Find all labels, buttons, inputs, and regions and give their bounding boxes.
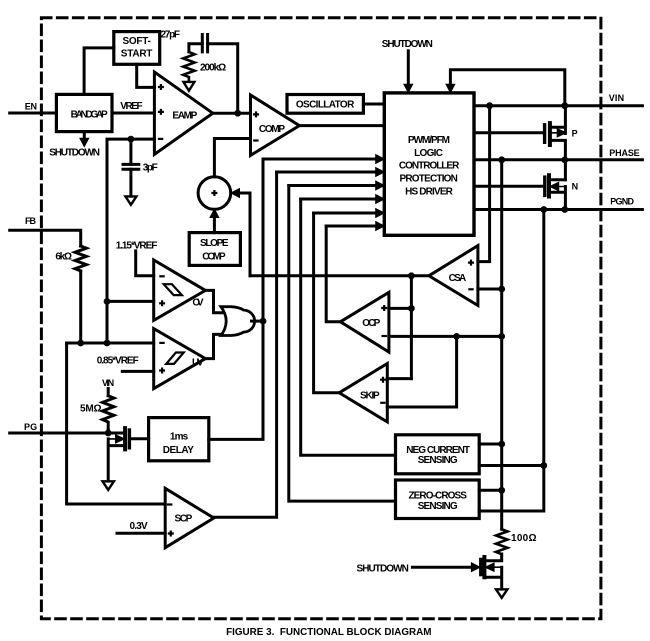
block OSCILLATOR <box>287 95 363 114</box>
svg-text:0.3V: 0.3V <box>130 521 149 532</box>
svg-text:CONTROLLER: CONTROLLER <box>399 161 460 172</box>
svg-text:SKIP: SKIP <box>360 391 380 402</box>
transistor bottom FET gate bar <box>479 559 482 574</box>
wire EN input <box>10 112 57 115</box>
wire NEG bottom output to PGND vertical <box>479 210 544 512</box>
wire EAMP output <box>213 112 251 115</box>
op-amp EAMP <box>154 72 212 154</box>
svg-text:OCP: OCP <box>362 318 380 329</box>
arrowhead slope up <box>210 209 219 217</box>
wire 6k down to UV node <box>79 271 82 343</box>
wire OV output to OR <box>205 290 222 312</box>
wire arrow5 from SKIP vertical <box>314 212 376 215</box>
resistor 100ohm <box>496 529 507 561</box>
vertical v1 OR gate line <box>209 159 263 439</box>
wire 27pF right to EAMP output node <box>208 44 238 113</box>
comparator UV <box>154 329 206 389</box>
amplifier CSA <box>429 246 478 306</box>
svg-text:6kΩ: 6kΩ <box>55 252 72 263</box>
wire arrow3 from zero-cross vertical <box>289 184 376 187</box>
wire bottom FET drain stub <box>486 554 502 561</box>
wire arrow2 from SCP vertical <box>277 171 376 174</box>
svg-text:DELAY: DELAY <box>163 445 194 456</box>
svg-text:PHASE: PHASE <box>609 148 639 158</box>
svg-text:UV: UV <box>192 357 204 368</box>
minus SCP <box>167 503 172 505</box>
transistor N channel bar <box>547 175 551 196</box>
resistor 5Mohm <box>102 396 113 430</box>
arrowhead into bottom FET gate <box>471 563 480 572</box>
wire CSA - input to PHASE vertical <box>478 288 502 291</box>
svg-text:VIN: VIN <box>609 93 624 103</box>
node PG 5M FET <box>105 430 112 437</box>
node PHASE CSA tap <box>498 156 505 163</box>
wire N source stub to PGND <box>550 187 565 210</box>
arrowhead loop into PWM <box>446 84 455 92</box>
vertical PHASE sense line <box>500 160 503 529</box>
wire 0.85*VREF to UV + <box>122 370 153 373</box>
wire CSA output to summer <box>250 274 429 277</box>
svg-text:SHUTDOWN: SHUTDOWN <box>382 39 433 50</box>
node EAMP output <box>234 110 241 117</box>
transistor N gate bar <box>543 177 546 195</box>
node PGND FET tap <box>561 206 568 213</box>
node CSA output OCP tap <box>408 272 415 279</box>
svg-text:SHUTDOWN: SHUTDOWN <box>49 147 100 158</box>
comparator SCP <box>165 488 214 547</box>
ground arrow below 3pF <box>125 196 136 204</box>
svg-text:BANDGAP: BANDGAP <box>71 110 108 121</box>
wire VIN label to 5Mohm <box>107 389 110 396</box>
wire OCP - input to PHASE vertical <box>389 335 502 338</box>
wire summer right input <box>239 193 250 276</box>
node FB bottom <box>77 340 84 347</box>
summer circle <box>198 177 231 210</box>
node VIN CSA tap <box>486 102 493 109</box>
node 3pF tap <box>127 136 134 143</box>
wire PGND rail <box>474 208 642 211</box>
gate OR <box>221 307 255 336</box>
svg-text:COMP: COMP <box>259 124 286 135</box>
capacitor 27pF <box>202 35 207 52</box>
block ZERO-CROSS SENSING <box>396 480 480 519</box>
svg-text:SENSING: SENSING <box>418 455 458 466</box>
capacitor 3pF <box>129 139 132 164</box>
svg-text:SHUTDOWN: SHUTDOWN <box>357 563 409 574</box>
vertical v4 neg-current line <box>301 199 396 455</box>
svg-text:SENSING: SENSING <box>418 501 458 512</box>
svg-text:VREF: VREF <box>120 101 142 112</box>
node VIN PFET tap <box>561 102 568 109</box>
wire FB net to SCP - <box>67 343 166 504</box>
ground arrow below 200k <box>183 82 194 91</box>
wire FB input <box>10 230 81 246</box>
svg-text:START: START <box>121 49 153 60</box>
node ZERO top <box>498 487 505 494</box>
wire N gate <box>474 185 543 188</box>
node PHASE FET tap <box>561 156 568 163</box>
svg-text:COMP: COMP <box>202 252 226 263</box>
transistor P gate bar <box>543 125 546 143</box>
svg-text:200kΩ: 200kΩ <box>200 62 226 73</box>
plus EAMP mid <box>158 109 164 115</box>
block BANDGAP <box>56 94 112 131</box>
node NEG top <box>498 441 505 448</box>
node CSA - on PHASE vertical <box>498 286 505 293</box>
svg-text:VIN: VIN <box>102 378 114 388</box>
block PWM/PFM controller <box>384 93 474 235</box>
comparator OCP <box>340 292 389 352</box>
wire COMP output to PWM <box>299 124 384 127</box>
wire SHUTDOWN top arrow <box>407 51 410 85</box>
svg-text:5MΩ: 5MΩ <box>80 404 102 415</box>
block 1ms DELAY <box>149 418 209 461</box>
wire PG FET gate to 1ms DELAY <box>131 437 149 440</box>
plus OCP <box>381 305 387 311</box>
plus SCP <box>168 531 174 537</box>
svg-text:CSA: CSA <box>449 273 467 284</box>
svg-text:PG: PG <box>24 422 37 432</box>
block NEG CURRENT SENSING <box>396 435 480 474</box>
svg-text:EAMP: EAMP <box>172 110 197 121</box>
vertical v6 OCP output line <box>326 226 340 322</box>
wire 0.3V to SCP + <box>117 532 165 535</box>
wire VIN loop into PWM top <box>450 70 564 106</box>
resistor 6kohm <box>75 246 86 271</box>
svg-text:FIGURE 3. FUNCTIONAL BLOCK DI: FIGURE 3. FUNCTIONAL BLOCK DIAGRAM <box>226 626 432 638</box>
svg-text:1.15*VREF: 1.15*VREF <box>116 241 158 252</box>
svg-text:1ms: 1ms <box>170 432 189 443</box>
transistor PG FET channel bar <box>123 428 127 449</box>
svg-text:N: N <box>572 181 579 191</box>
svg-text:PWM/PFM: PWM/PFM <box>408 135 450 146</box>
arrowhead shutdown down <box>80 138 89 146</box>
minus UV <box>159 342 164 344</box>
wire bottom FET source stub to ground <box>486 567 502 589</box>
arrow P body pointing right <box>551 129 566 136</box>
svg-text:SOFT-: SOFT- <box>123 36 151 47</box>
arrowhead into summer <box>231 189 240 198</box>
svg-text:OV: OV <box>192 297 204 308</box>
wire OR output <box>252 320 264 323</box>
plus COMP <box>253 111 259 117</box>
transistor bottom FET channel bar <box>482 557 486 577</box>
plus OV <box>159 300 165 306</box>
wire SKIP + input <box>387 377 411 380</box>
wire arrow6 from OCP vertical <box>326 225 376 228</box>
svg-text:27pF: 27pF <box>161 30 181 41</box>
node OCP + <box>408 305 415 312</box>
plus EAMP top <box>158 84 164 90</box>
minus OV <box>159 275 164 277</box>
wire N drain stub to PHASE <box>550 178 565 181</box>
node NEG bottom <box>540 462 547 469</box>
node OCP - SKIP tap <box>453 333 460 340</box>
minus COMP <box>253 139 258 141</box>
block SOFT-START <box>114 32 160 65</box>
wire SKIP - input <box>387 336 456 407</box>
svg-text:PGND: PGND <box>610 197 634 207</box>
svg-text:3pF: 3pF <box>143 163 158 174</box>
wire P gate <box>474 131 543 134</box>
ground arrow bottom FET <box>496 589 507 598</box>
vertical v3 zero-cross line <box>289 186 396 502</box>
wire ZERO top output <box>479 489 502 492</box>
svg-text:0.85*VREF: 0.85*VREF <box>97 356 139 367</box>
comparator SKIP <box>339 364 387 422</box>
plus SKIP <box>380 377 386 383</box>
plus summer <box>211 190 217 196</box>
ground arrow PG FET <box>103 481 114 490</box>
minus SKIP <box>380 402 385 404</box>
wire 5M to PG node <box>107 430 110 433</box>
wire arrow1 from OR vertical <box>263 158 376 161</box>
wire PHASE rail <box>474 158 642 161</box>
wire EAMP - input <box>107 139 154 343</box>
comparator COMP <box>251 95 300 155</box>
minus CSA <box>468 288 473 290</box>
svg-text:LOGIC: LOGIC <box>414 148 443 159</box>
wire P source stub to VIN <box>551 106 565 134</box>
wire SHUTDOWN bottom gate <box>412 566 472 569</box>
minus OCP <box>382 335 387 337</box>
block SLOPE COMP <box>189 233 240 266</box>
vertical v2 SCP line <box>214 172 277 517</box>
wire arrow4 from neg-current vertical <box>301 198 376 201</box>
svg-text:P: P <box>572 128 578 138</box>
wire VREF BANDGAP to EAMP + <box>112 112 154 115</box>
wire SOFT-START to EAMP + <box>137 64 155 87</box>
svg-text:SLOPE: SLOPE <box>200 238 229 249</box>
svg-text:HS DRIVER: HS DRIVER <box>405 186 454 197</box>
comparator OV <box>154 260 206 320</box>
wire CSA + input to VIN vertical <box>478 106 490 262</box>
arrowhead shutdown into PWM <box>404 84 413 92</box>
svg-text:ZERO-CROSS: ZERO-CROSS <box>409 490 468 501</box>
wire 27pF left to 200k <box>189 44 202 52</box>
arrowheads into PWM left edge <box>376 155 385 231</box>
arrow bottom FET body pointing left <box>486 564 502 571</box>
plus UV <box>159 368 165 374</box>
svg-text:PROTECTION: PROTECTION <box>400 173 458 184</box>
svg-text:SCP: SCP <box>175 514 193 525</box>
wire SHUTDOWN output of BANDGAP <box>83 132 86 139</box>
wire UV output to OR <box>205 334 222 358</box>
wire SLOPE COMP to summer <box>213 217 216 233</box>
arrow PG FET body pointing right <box>108 435 124 442</box>
node OCP - on PHASE vertical <box>498 333 505 340</box>
node OR output <box>260 318 267 325</box>
wire BANDGAP to SOFT-START <box>84 48 114 95</box>
node EAMP- bottom <box>104 340 111 347</box>
wire 1.15*VREF to OV - <box>136 251 154 276</box>
transistor P channel bar <box>548 123 552 145</box>
wire OSCILLATOR to PWM <box>363 103 384 106</box>
wire PG FET source stub to ground <box>108 439 123 481</box>
wire NEG top output <box>479 443 502 446</box>
svg-text:EN: EN <box>25 102 37 112</box>
svg-text:FB: FB <box>25 216 37 226</box>
hysteresis glyph UV <box>166 353 184 364</box>
wire COMP - input from summer <box>214 139 250 177</box>
node OV + tap <box>104 298 111 305</box>
resistor 200kohm <box>183 52 194 82</box>
plus CSA <box>468 260 474 266</box>
vertical v5 SKIP output line <box>314 213 340 393</box>
wire OV + input <box>107 300 154 303</box>
wire UV - input net <box>67 342 154 345</box>
svg-text:100Ω: 100Ω <box>511 533 537 544</box>
wire PG input <box>10 432 125 435</box>
hysteresis glyph OV <box>164 284 182 295</box>
minus EAMP <box>158 138 163 140</box>
wire VIN rail <box>474 104 642 107</box>
node PGND sense tap <box>540 206 547 213</box>
wire P drain stub to PHASE <box>551 140 565 179</box>
transistor PG FET gate bar <box>128 430 131 448</box>
wire OCP + input <box>389 276 412 379</box>
arrow N body pointing left <box>550 183 565 190</box>
svg-text:OSCILLATOR: OSCILLATOR <box>296 100 355 111</box>
